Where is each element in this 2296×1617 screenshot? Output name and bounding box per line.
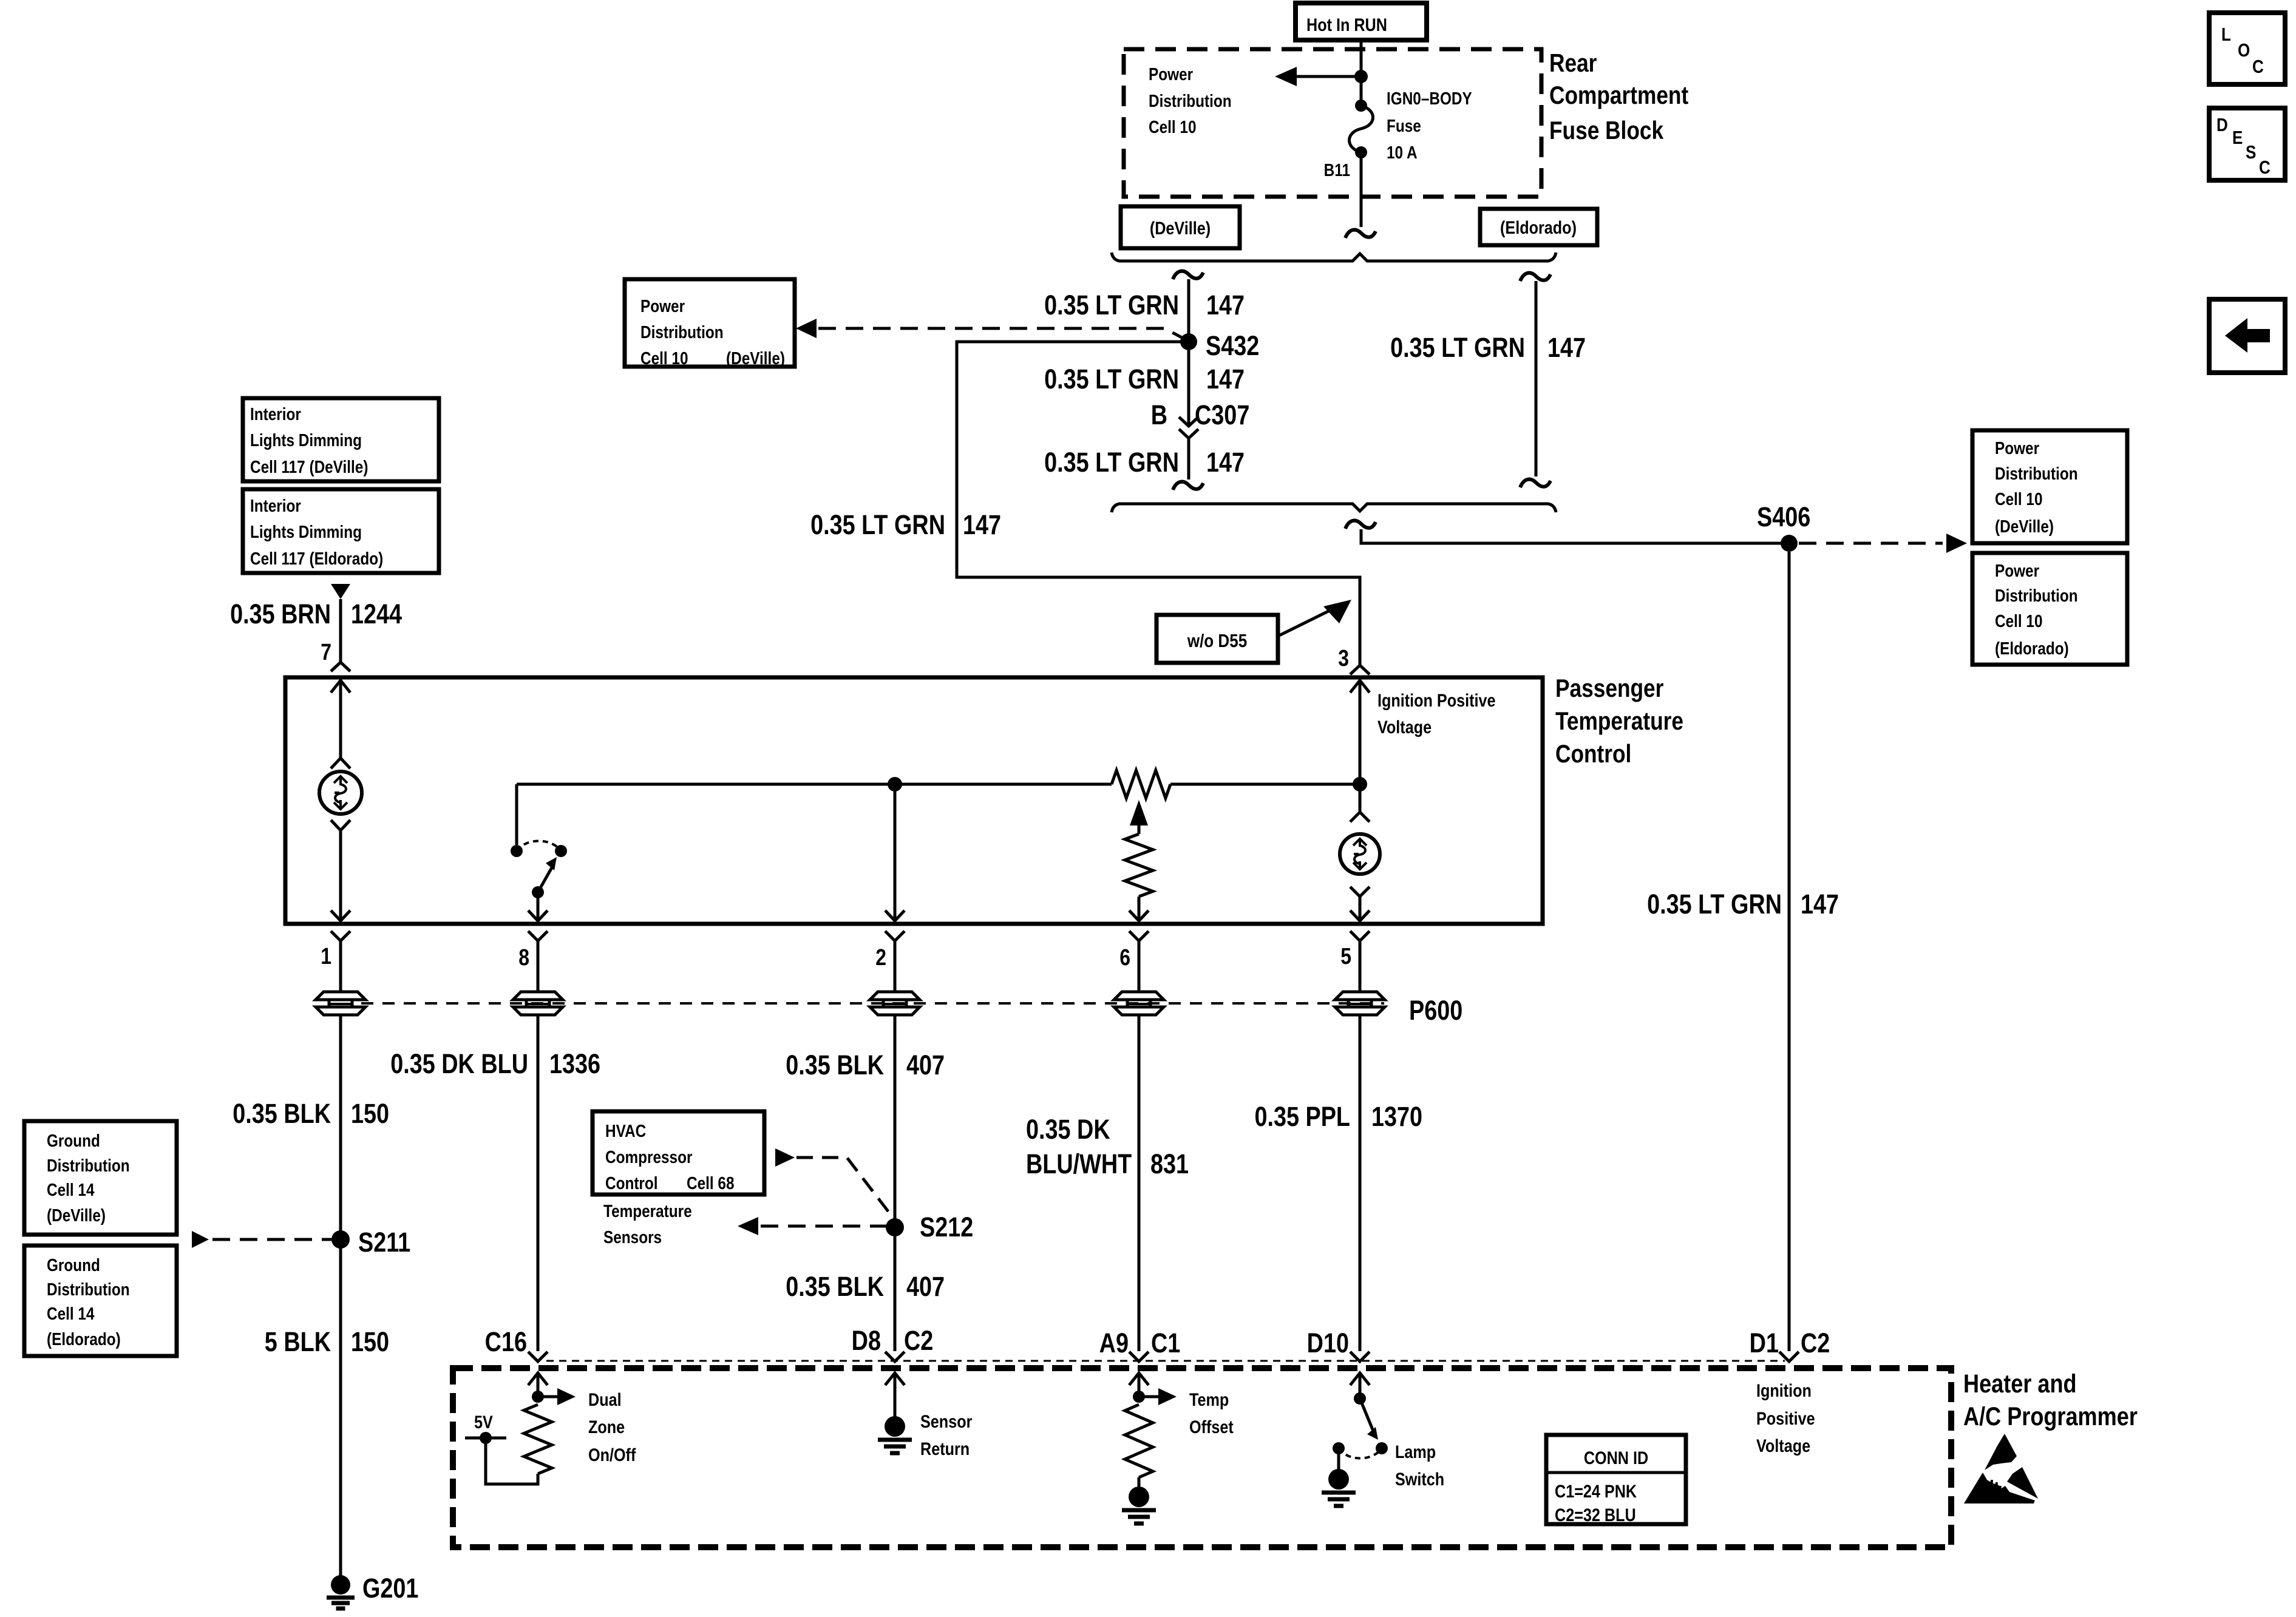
svg-text:Distribution: Distribution (47, 1156, 130, 1175)
svg-text:Fuse: Fuse (1387, 116, 1421, 135)
junction dot C16 (532, 1391, 544, 1403)
svg-text:Compressor: Compressor (605, 1147, 693, 1167)
ground G201 (327, 1573, 418, 1609)
svg-text:C1=24 PNK: C1=24 PNK (1555, 1481, 1637, 1502)
wire to S406 (1361, 529, 1789, 543)
wire pin 2 internal (885, 784, 905, 921)
ESD sensitive symbol (1964, 1434, 2038, 1503)
arrow into box pin 3 (1350, 680, 1370, 784)
svg-text:Return: Return (920, 1439, 970, 1459)
svg-text:S212: S212 (920, 1212, 973, 1242)
box Power Distribution Cell 10 (Eldorado) right (1972, 553, 2127, 665)
svg-text:Cell 10: Cell 10 (1995, 611, 2042, 631)
splice S432 (1180, 330, 1259, 361)
svg-text:147: 147 (1206, 364, 1245, 395)
pin D8 C2 (852, 1325, 934, 1361)
svg-text:C307: C307 (1195, 399, 1249, 430)
svg-text:Heater and: Heater and (1963, 1369, 2077, 1398)
pin C16 (485, 1326, 548, 1361)
svg-text:Sensors: Sensors (603, 1227, 662, 1247)
splice S212 (886, 1212, 973, 1242)
pin B11 label (1324, 160, 1350, 180)
svg-text:Cell 10: Cell 10 (1995, 489, 2042, 509)
svg-text:Passenger: Passenger (1555, 674, 1663, 703)
svg-text:831: 831 (1150, 1148, 1189, 1179)
wire pin 7 (339, 599, 342, 662)
label Hot In RUN (1296, 3, 1427, 40)
svg-text:C2: C2 (904, 1325, 933, 1356)
svg-text:(DeVille): (DeVille) (1150, 218, 1211, 239)
svg-text:(DeVille): (DeVille) (47, 1205, 106, 1225)
svg-text:(Eldorado): (Eldorado) (47, 1329, 121, 1349)
box Ground Distribution Cell 14 (Eldorado) (24, 1246, 177, 1356)
wire label 0.35 LT GRN 147 (2) (1044, 364, 1245, 395)
svg-text:Ignition: Ignition (1756, 1380, 1812, 1401)
svg-text:Ground: Ground (47, 1131, 100, 1150)
switch to pin 8 (528, 892, 548, 921)
wire label 0.35 LT GRN 147 (1) (1044, 290, 1245, 320)
box Ground Distribution Cell 14 (DeVille) (24, 1121, 177, 1235)
svg-text:P600: P600 (1409, 995, 1462, 1026)
svg-text:Ground: Ground (47, 1255, 100, 1275)
svg-text:0.35 BLK: 0.35 BLK (233, 1098, 331, 1129)
back-arrow icon box (2209, 299, 2285, 373)
svg-text:Power: Power (1149, 64, 1194, 84)
svg-text:Cell 14: Cell 14 (47, 1180, 95, 1199)
svg-text:IGN0–BODY: IGN0–BODY (1387, 89, 1472, 108)
connector P600 pin5 (1335, 992, 1385, 1015)
arrow Dual Zone (538, 1388, 576, 1405)
arrow to Power Distribution (1275, 67, 1361, 86)
bus junction pin 5 (1353, 777, 1367, 792)
svg-text:407: 407 (906, 1271, 945, 1302)
wire label 0.35 LT GRN 147 (4) (810, 509, 1001, 540)
svg-text:0.35 BRN: 0.35 BRN (230, 598, 331, 629)
pin D10 (1307, 1327, 1370, 1361)
wire Eldorado branch (1535, 281, 1538, 476)
svg-text:Distribution: Distribution (1995, 586, 2078, 605)
svg-text:10 A: 10 A (1387, 143, 1418, 162)
svg-text:Control: Control (1555, 740, 1631, 768)
svg-text:CONN ID: CONN ID (1584, 1448, 1648, 1468)
svg-text:B11: B11 (1324, 160, 1350, 180)
wire label 0.35 DK BLU/WHT 831 (1026, 1114, 1189, 1179)
pin 1 (321, 931, 350, 992)
pin 3 wire (1359, 577, 1362, 665)
arrow to pin 5 (1350, 910, 1370, 921)
junction dot above fuse (1354, 70, 1368, 83)
svg-text:5 BLK: 5 BLK (265, 1326, 331, 1357)
text Ignition Positive Voltage (heater) (1756, 1380, 1815, 1456)
title Heater and A/C Programmer (1963, 1369, 2138, 1431)
svg-text:1336: 1336 (549, 1048, 600, 1079)
lamp dimming symbol (319, 758, 362, 921)
node w/o D55 box (1156, 615, 1278, 663)
Rear Compartment Fuse Block dashed box (1124, 49, 1541, 197)
svg-text:1370: 1370 (1371, 1101, 1422, 1132)
svg-text:6: 6 (1119, 944, 1130, 970)
break symbol DeVille branch bottom (1173, 482, 1203, 490)
svg-text:Cell 117 (Eldorado): Cell 117 (Eldorado) (250, 549, 383, 568)
splice S211 (331, 1227, 410, 1258)
wire B11 down (1360, 152, 1363, 227)
svg-text:Voltage: Voltage (1377, 717, 1432, 737)
arrow into D8 (885, 1373, 905, 1417)
svg-text:Distribution: Distribution (1149, 91, 1232, 110)
connector row dashed line (361, 1002, 1384, 1005)
svg-text:Lights Dimming: Lights Dimming (250, 430, 362, 450)
break symbol below bracket (1345, 521, 1376, 529)
svg-text:A/C Programmer: A/C Programmer (1963, 1402, 2138, 1431)
ground A9 (1122, 1486, 1156, 1524)
bracket splice top (1112, 253, 1556, 261)
CONN ID table (1546, 1435, 1686, 1525)
svg-text:Temperature: Temperature (1555, 707, 1683, 736)
wire S406 to D1 (1788, 552, 1791, 1351)
fuse IGN0-BODY F1 (1350, 100, 1373, 158)
svg-text:HVAC: HVAC (605, 1121, 646, 1141)
label (Eldorado) (1480, 209, 1597, 245)
break symbol B11 wire (1345, 230, 1376, 238)
text Temp Offset (1189, 1389, 1234, 1437)
wire from Hot In RUN (1360, 40, 1363, 106)
svg-text:Distribution: Distribution (640, 322, 724, 342)
pin 7 (321, 639, 350, 671)
label (DeVille) (1121, 206, 1240, 248)
dashed arrow from HVAC box (775, 1148, 895, 1220)
resistor temp offset (1125, 1405, 1153, 1477)
pin 2 (875, 931, 905, 992)
svg-text:D1: D1 (1750, 1327, 1779, 1358)
svg-text:Dual: Dual (588, 1389, 622, 1410)
arrow into D10 (1350, 1373, 1370, 1394)
svg-text:D10: D10 (1307, 1327, 1349, 1358)
ground sensor return (878, 1416, 912, 1453)
svg-text:0.35 DK BLU: 0.35 DK BLU (390, 1048, 528, 1079)
svg-text:0.35 DK: 0.35 DK (1026, 1114, 1110, 1145)
svg-text:B: B (1151, 399, 1167, 430)
svg-text:D8: D8 (852, 1325, 881, 1356)
svg-text:C: C (2252, 56, 2264, 78)
wire col1 to S211 (339, 1015, 342, 1576)
svg-text:0.35 LT GRN: 0.35 LT GRN (1044, 447, 1179, 478)
svg-text:S211: S211 (358, 1227, 410, 1258)
svg-text:Power: Power (1995, 561, 2040, 580)
svg-text:Compartment: Compartment (1549, 81, 1688, 110)
svg-text:147: 147 (1206, 447, 1245, 478)
wire label 0.35 BLK 407 (1) (786, 1049, 945, 1080)
arrow into box pin 7 (331, 680, 350, 758)
connector P600 pin2 (870, 992, 920, 1015)
svg-text:Hot In RUN: Hot In RUN (1306, 15, 1387, 35)
svg-text:Sensor: Sensor (920, 1411, 973, 1432)
wiper arrow (1130, 800, 1148, 834)
svg-text:Cell 10: Cell 10 (1149, 117, 1196, 137)
wire label 0.35 BRN 1244 (230, 598, 402, 629)
svg-text:Voltage: Voltage (1756, 1436, 1810, 1456)
svg-text:S432: S432 (1206, 330, 1259, 361)
box Interior Lights Dimming Cell 117 (Eldorado) (243, 489, 439, 573)
internal bus wire (517, 783, 1360, 786)
text Temperature Sensors (603, 1201, 692, 1247)
wire label 0.35 LT GRN 147 (5) (1647, 889, 1839, 920)
svg-text:(DeVille): (DeVille) (1995, 517, 2054, 536)
svg-text:0.35 LT GRN: 0.35 LT GRN (1390, 332, 1525, 363)
svg-text:Control: Control (605, 1173, 658, 1193)
wire label 0.35 DK BLU 1336 (390, 1048, 600, 1079)
svg-text:Interior: Interior (250, 404, 301, 424)
heater connector dashed line (546, 1360, 1785, 1362)
junction dot A9 (1133, 1391, 1145, 1403)
connector P600 pin1 (316, 992, 365, 1015)
text Dual Zone On/Off (588, 1389, 636, 1465)
svg-text:w/o D55: w/o D55 (1187, 631, 1247, 652)
wire below C307 (1187, 438, 1190, 480)
arrow into Interior Lights boxes (331, 584, 350, 599)
svg-text:0.35 BLK: 0.35 BLK (786, 1271, 884, 1302)
lamp switch contacts (1333, 1442, 1388, 1459)
Passenger Temperature Control box (285, 677, 1543, 924)
svg-text:407: 407 (906, 1049, 945, 1080)
svg-text:Temp: Temp (1189, 1389, 1229, 1410)
svg-text:Fuse Block: Fuse Block (1549, 117, 1664, 145)
wire label 5 BLK 150 (265, 1326, 389, 1357)
svg-text:8: 8 (518, 944, 529, 970)
wire label 0.35 LT GRN 147 (3) (1044, 447, 1245, 478)
svg-text:C: C (2259, 157, 2271, 178)
switch riser wire (515, 784, 518, 845)
svg-text:Rear: Rear (1549, 49, 1597, 78)
svg-text:Offset: Offset (1189, 1417, 1234, 1437)
svg-text:Temperature: Temperature (603, 1201, 692, 1221)
dashed arrow to Power Distribution right (1799, 534, 1967, 553)
svg-text:(DeVille): (DeVille) (726, 348, 785, 368)
LOC legend box (2209, 13, 2285, 84)
svg-text:150: 150 (351, 1326, 389, 1357)
svg-text:S: S (2246, 142, 2256, 163)
svg-text:Distribution: Distribution (1995, 464, 2078, 483)
svg-text:C1: C1 (1151, 1327, 1180, 1358)
dashed arrow to Temperature Sensors (738, 1217, 886, 1235)
svg-text:C2=32 BLU: C2=32 BLU (1555, 1505, 1636, 1525)
svg-text:0.35 LT GRN: 0.35 LT GRN (810, 509, 945, 540)
svg-text:Cell 117 (DeVille): Cell 117 (DeVille) (250, 457, 368, 476)
connector C307 symbol (1179, 417, 1198, 438)
svg-text:1: 1 (321, 943, 331, 969)
connector P600 pin6 (1114, 992, 1164, 1015)
wire col6 to pin 6 (1129, 897, 1149, 921)
svg-text:Positive: Positive (1756, 1408, 1815, 1429)
wire to ground A9 (1138, 1477, 1141, 1488)
svg-text:On/Off: On/Off (588, 1445, 636, 1465)
svg-text:Switch: Switch (1395, 1469, 1444, 1490)
svg-text:Cell 14: Cell 14 (47, 1304, 95, 1323)
arrow w/o D55 (1278, 600, 1351, 636)
svg-text:Cell 10: Cell 10 (640, 348, 688, 368)
svg-text:C2: C2 (1801, 1327, 1830, 1358)
text Ignition Positive Voltage (1377, 690, 1496, 737)
svg-text:Distribution: Distribution (47, 1280, 130, 1299)
title Passenger Temperature Control (1555, 674, 1683, 768)
svg-text:147: 147 (1801, 889, 1839, 920)
svg-text:Power: Power (1995, 438, 2040, 458)
svg-text:Cell 68: Cell 68 (687, 1173, 735, 1193)
svg-text:5V: 5V (474, 1412, 493, 1432)
pin 5 (1340, 931, 1370, 992)
svg-text:3: 3 (1338, 645, 1349, 671)
svg-text:C16: C16 (485, 1326, 527, 1357)
svg-text:E: E (2232, 127, 2243, 149)
text Sensor Return (920, 1411, 973, 1459)
svg-text:147: 147 (1547, 332, 1586, 363)
text IGN0-BODY Fuse 10 A (1387, 89, 1472, 162)
text Lamp Switch (1395, 1442, 1444, 1490)
connector P600 pin8 (513, 992, 563, 1015)
resistor dual zone (524, 1405, 552, 1474)
svg-text:0.35 BLK: 0.35 BLK (786, 1049, 884, 1080)
svg-text:Power: Power (640, 296, 685, 316)
bus junction pin 2 (888, 777, 902, 792)
pin A9 C1 (1099, 1327, 1181, 1361)
pin 3 (1338, 645, 1370, 674)
connector C307 pin B (1151, 399, 1250, 430)
arrow into C16 (528, 1373, 548, 1397)
wire label 0.35 BLK 407 (2) (786, 1271, 945, 1302)
pin D1 C2 (1750, 1327, 1830, 1361)
svg-text:(Eldorado): (Eldorado) (1995, 639, 2069, 658)
Heater and A/C Programmer dashed box (453, 1368, 1951, 1547)
svg-text:0.35 LT GRN: 0.35 LT GRN (1044, 290, 1179, 320)
svg-text:O: O (2238, 40, 2250, 61)
text Power Distribution Cell 10 (1149, 64, 1232, 137)
wire col8 to C16 (537, 1015, 540, 1351)
wire label 0.35 PPL 1370 (1254, 1101, 1422, 1132)
ground lamp switch (1322, 1469, 1356, 1506)
svg-text:Zone: Zone (588, 1417, 625, 1437)
wire col2 to D8 (894, 1015, 897, 1351)
svg-text:7: 7 (321, 639, 331, 665)
svg-text:1244: 1244 (351, 598, 402, 629)
svg-text:2: 2 (875, 944, 886, 970)
splice S406 (1757, 501, 1810, 552)
box HVAC Compressor Control (593, 1111, 764, 1195)
svg-text:0.35 LT GRN: 0.35 LT GRN (1647, 889, 1782, 920)
pin 8 (518, 931, 548, 992)
title Rear Compartment Fuse Block (1549, 49, 1688, 145)
pin 6 (1119, 931, 1149, 992)
label P600 (1409, 995, 1462, 1026)
wire col6 to A9 (1138, 1015, 1141, 1351)
svg-text:0.35 LT GRN: 0.35 LT GRN (1044, 364, 1179, 395)
dashed wire to Power Distribution DeVille (796, 319, 1189, 341)
svg-text:0.35 PPL: 0.35 PPL (1254, 1101, 1350, 1132)
break symbol Eldorado branch bottom (1520, 480, 1550, 487)
wire DeVille branch (1187, 279, 1190, 426)
DESC legend box (2209, 108, 2285, 180)
svg-text:G201: G201 (362, 1573, 418, 1604)
svg-text:D: D (2216, 115, 2228, 136)
box Power Distribution Cell 10 (DeVille) (625, 279, 795, 368)
wire label 0.35 BLK 150 (233, 1098, 389, 1129)
svg-text:Ignition Positive: Ignition Positive (1377, 690, 1496, 711)
wire col5 to D10 (1359, 1015, 1362, 1351)
lamp switch illumination symbol (1340, 784, 1380, 921)
wire S432 left-down-right (957, 342, 1360, 665)
svg-text:S406: S406 (1757, 501, 1810, 532)
svg-text:Interior: Interior (250, 496, 301, 515)
resistor on bus (1112, 770, 1170, 798)
dual zone switch (511, 841, 567, 899)
box Interior Lights Dimming Cell 117 (DeVille) (243, 398, 439, 481)
wire to ground lamp switch (1337, 1448, 1340, 1470)
box Power Distribution Cell 10 (DeVille) right (1972, 430, 2127, 543)
5V supply (465, 1412, 538, 1484)
bracket splice bottom (1112, 504, 1556, 512)
svg-text:5: 5 (1340, 943, 1351, 969)
svg-text:147: 147 (1206, 290, 1245, 320)
break symbol Eldorado branch top (1520, 273, 1550, 281)
svg-text:Lights Dimming: Lights Dimming (250, 522, 362, 541)
arrow to pin 1 (331, 910, 350, 921)
arrow Temp Offset (1139, 1388, 1177, 1405)
dashed arrow from Ground Distribution (192, 1231, 331, 1248)
svg-text:BLU/WHT: BLU/WHT (1026, 1148, 1132, 1179)
svg-text:Lamp: Lamp (1395, 1442, 1436, 1462)
wire label 0.35 LT GRN 147 (Eldorado) (1390, 332, 1586, 363)
arrow into A9 (1129, 1373, 1149, 1397)
break symbol DeVille branch top (1173, 271, 1203, 279)
svg-text:L: L (2221, 24, 2231, 46)
lamp switch pivot (1354, 1392, 1378, 1440)
svg-text:A9: A9 (1099, 1327, 1129, 1358)
svg-text:150: 150 (351, 1098, 389, 1129)
resistor vertical col6 (1125, 834, 1153, 897)
svg-text:147: 147 (963, 509, 1001, 540)
svg-text:(Eldorado): (Eldorado) (1500, 217, 1577, 238)
